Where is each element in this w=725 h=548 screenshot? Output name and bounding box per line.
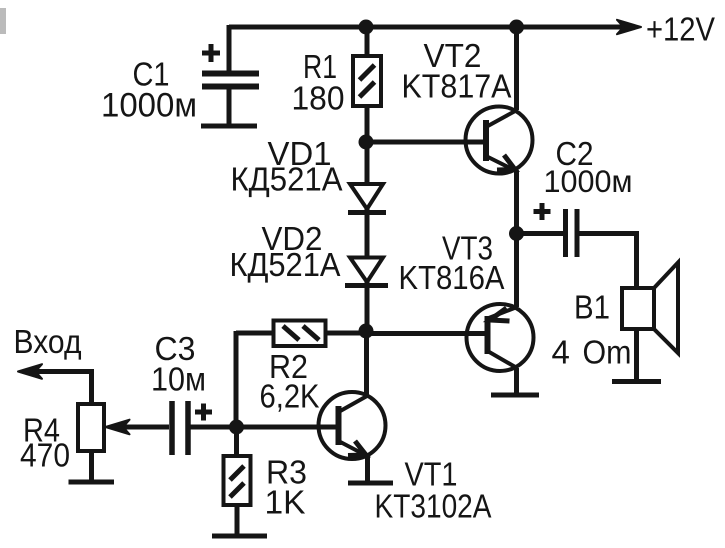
svg-text:B1: B1 xyxy=(574,289,610,326)
svg-text:Om: Om xyxy=(583,334,632,371)
svg-text:180: 180 xyxy=(292,80,345,117)
svg-text:1000м: 1000м xyxy=(544,163,633,199)
svg-text:470: 470 xyxy=(20,437,70,474)
svg-text:КД521А: КД521А xyxy=(231,161,343,198)
svg-text:Вход: Вход xyxy=(14,323,82,360)
svg-text:+12V: +12V xyxy=(646,11,715,48)
svg-text:1K: 1K xyxy=(265,484,306,521)
svg-text:KT816A: KT816A xyxy=(399,259,505,296)
svg-text:10м: 10м xyxy=(151,361,206,398)
svg-text:4: 4 xyxy=(552,334,570,371)
svg-text:KT3102A: KT3102A xyxy=(375,488,492,525)
svg-text:KT817A: KT817A xyxy=(402,68,512,105)
svg-text:КД521А: КД521А xyxy=(230,246,341,283)
svg-text:6,2K: 6,2K xyxy=(260,378,320,415)
svg-text:1000м: 1000м xyxy=(101,87,197,125)
